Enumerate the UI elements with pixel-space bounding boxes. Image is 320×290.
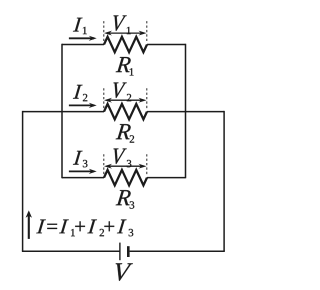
label R2: [116, 124, 134, 142]
label V3: [114, 149, 132, 168]
dashed marker left of R2: [103, 88, 105, 108]
wire: left outer vertical: [22, 111, 24, 251]
current arrow I3: [69, 170, 94, 172]
wire: R1 branch left segment: [62, 44, 104, 46]
label I2: [73, 85, 87, 101]
label I3: [73, 151, 87, 167]
wire: R2 branch left segment: [23, 111, 104, 113]
dashed marker left of R1: [103, 21, 105, 41]
current arrow I1: [69, 37, 94, 39]
voltage arrow V3: [107, 165, 144, 167]
voltage arrow V2: [107, 99, 144, 101]
wire: R1 branch right segment: [147, 44, 186, 46]
wire: bottom left segment: [22, 250, 120, 252]
battery V short plate: [127, 246, 130, 257]
wire: R2 branch right segment: [147, 111, 224, 113]
label R1: [116, 57, 134, 75]
label V1: [114, 15, 131, 34]
dashed marker right of R3: [146, 154, 148, 174]
wire: inner right bus: [185, 44, 187, 179]
voltage arrow V1: [107, 32, 144, 34]
total current arrow I: [28, 213, 30, 239]
resistor R2 zigzag: [104, 104, 147, 119]
wire: bottom right segment: [130, 250, 225, 252]
wire: R3 branch right segment: [147, 177, 186, 179]
label V battery: [116, 263, 133, 280]
label R3: [116, 190, 135, 209]
wire: inner left bus: [61, 44, 63, 179]
dashed marker left of R3: [103, 154, 105, 174]
wire: R3 branch left segment: [62, 177, 104, 179]
resistor R3 zigzag: [104, 170, 147, 185]
current arrow I2: [69, 104, 94, 106]
equation I = I1 + I2 + I3: [36, 220, 133, 237]
dashed marker right of R1: [146, 21, 148, 41]
dashed marker right of R2: [146, 88, 148, 108]
label V2: [114, 83, 132, 102]
label I1: [73, 18, 87, 34]
battery V long plate: [119, 243, 121, 261]
wire: right outer vertical: [223, 111, 225, 251]
resistor R1 zigzag: [104, 37, 147, 52]
